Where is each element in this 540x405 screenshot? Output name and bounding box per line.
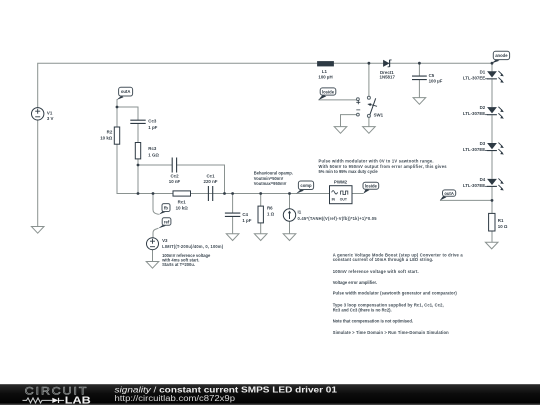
svg-text:V1: V1: [47, 110, 53, 115]
svg-text:comp: comp: [300, 183, 312, 188]
svg-text:I1: I1: [298, 210, 302, 215]
svg-text:LAB: LAB: [65, 395, 91, 405]
svg-text:LTL-307EE: LTL-307EE: [463, 75, 485, 80]
svg-text:Rc3 and Cc3 (there is no Rc2).: Rc3 and Cc3 (there is no Rc2).: [333, 307, 392, 312]
svg-text:Simulate > Time Domain > Run T: Simulate > Time Domain > Run Time-Domain…: [333, 330, 449, 335]
svg-text:LTL-307EE: LTL-307EE: [463, 183, 485, 188]
svg-text:anode: anode: [495, 53, 508, 58]
svg-text:3 V: 3 V: [47, 116, 54, 121]
svg-text:D2: D2: [480, 105, 486, 110]
svg-text:D4: D4: [480, 177, 486, 182]
svg-text:C4: C4: [242, 212, 248, 217]
svg-text:V3: V3: [162, 238, 168, 243]
svg-text:LIMIT((T-200u)/40m, 0, 100m): LIMIT((T-200u)/40m, 0, 100m): [162, 244, 224, 249]
svg-text:1 Ω: 1 Ω: [267, 212, 275, 217]
svg-text:100 µH: 100 µH: [318, 74, 332, 79]
svg-text:1N5817: 1N5817: [380, 75, 396, 80]
svg-text:LTL-307EE: LTL-307EE: [463, 111, 485, 116]
svg-text:D3: D3: [480, 141, 486, 146]
svg-text:1 GΩ: 1 GΩ: [148, 152, 159, 157]
svg-text:220 nF: 220 nF: [204, 179, 218, 184]
svg-text:R2: R2: [107, 130, 113, 135]
svg-text:loside: loside: [322, 89, 335, 94]
svg-text:D1: D1: [480, 69, 486, 74]
svg-text:Rc1: Rc1: [178, 200, 187, 205]
svg-text:L1: L1: [322, 69, 328, 74]
svg-text:Cc3: Cc3: [148, 119, 157, 124]
svg-text:100mV reference voltage with s: 100mV reference voltage with soft start.: [333, 269, 419, 274]
svg-text:OUT: OUT: [340, 197, 348, 201]
svg-text:Starts at T=200u.: Starts at T=200u.: [162, 262, 195, 267]
svg-text:C5: C5: [429, 73, 435, 78]
svg-text:Cc1: Cc1: [206, 173, 215, 178]
svg-text:10 nF: 10 nF: [169, 179, 181, 184]
svg-text:10 Ω: 10 Ω: [498, 224, 508, 229]
svg-text:R6: R6: [267, 206, 273, 211]
svg-text:Voltage error amplifier.: Voltage error amplifier.: [333, 280, 377, 285]
svg-text:PWM2: PWM2: [334, 180, 348, 185]
svg-text:outA: outA: [121, 89, 131, 94]
svg-text:0.45*(TANH((V(ref)-V(fb))*1k)+: 0.45*(TANH((V(ref)-V(fb))*1k)+1)*0.05: [298, 216, 378, 221]
svg-text:Pulse width modulator (sawtoot: Pulse width modulator (sawtooth generato…: [333, 290, 458, 295]
svg-text:IN: IN: [332, 197, 336, 201]
svg-text:Note that compensation is not: Note that compensation is not optimised.: [333, 318, 413, 323]
svg-text:fb: fb: [164, 206, 168, 211]
svg-text:1 pF: 1 pF: [148, 125, 157, 130]
svg-text:Behavioural opamp.: Behavioural opamp.: [254, 171, 293, 176]
svg-text:ref: ref: [164, 219, 170, 224]
svg-text:Voutmax=950mV: Voutmax=950mV: [254, 181, 287, 186]
svg-text:5% min to 95% max duty cycle: 5% min to 95% max duty cycle: [319, 169, 379, 174]
svg-text:loside: loside: [365, 184, 378, 189]
svg-text:100 µF: 100 µF: [429, 78, 443, 83]
svg-text:R1: R1: [498, 218, 504, 223]
svg-text:constant current of 10mA throu: constant current of 10mA through a LED s…: [333, 257, 434, 262]
svg-text:10 kΩ: 10 kΩ: [176, 205, 189, 210]
svg-text:Cc2: Cc2: [170, 173, 179, 178]
svg-text:http://circuitlab.com/c872x9p: http://circuitlab.com/c872x9p: [115, 394, 236, 403]
svg-text:Rc3: Rc3: [148, 146, 157, 151]
svg-text:SW1: SW1: [374, 112, 384, 117]
svg-text:LTL-307EE: LTL-307EE: [463, 147, 485, 152]
svg-text:10 kΩ: 10 kΩ: [100, 136, 113, 141]
svg-text:outA: outA: [444, 191, 454, 196]
svg-text:1 pF: 1 pF: [242, 218, 251, 223]
